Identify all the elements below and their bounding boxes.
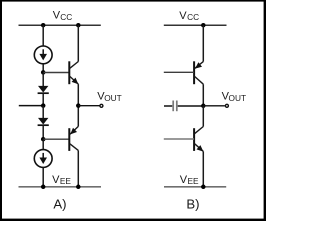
wire D2 to lower node (42, 125, 44, 139)
node dot VEE-A left (41, 185, 46, 190)
current source I2 (34, 150, 52, 168)
svg-text:OUT: OUT (104, 93, 122, 103)
collector wire Q3 to mid node (202, 84, 204, 106)
wire VCC to current source I1 (42, 25, 44, 46)
junction dot I1/D1/base Q1 (41, 70, 46, 75)
svg-text:OUT: OUT (229, 93, 247, 103)
transistor Q3 (PNP top) (194, 61, 203, 84)
diode D2 (38, 118, 49, 125)
capacitor C1 (164, 101, 203, 112)
wire I2 to VEE (42, 167, 44, 186)
svg-text:V: V (180, 174, 188, 186)
VOUT wire A (78, 105, 99, 107)
svg-text:A): A) (53, 197, 66, 212)
label VEE A (52, 174, 71, 186)
emitter node wire Q1-Q2 (77, 84, 79, 126)
transistor Q4 (NPN bottom) (194, 127, 203, 152)
emitter wire Q3 to VCC (202, 25, 204, 61)
border frame (0, 0, 266, 221)
transistor Q1 (NPN top) (69, 61, 78, 84)
label VOUT B (222, 91, 246, 103)
svg-text:B): B) (186, 197, 199, 212)
diode D1 (38, 86, 49, 93)
collector wire Q2 to VEE (77, 150, 79, 186)
collector wire Q1 to VCC (77, 25, 79, 61)
emitter wire Q4 to VEE (202, 151, 204, 186)
node dot VCC-B (201, 23, 206, 28)
base wire Q2 (43, 138, 69, 140)
node dot VEE-B (201, 185, 206, 190)
base wire Q4 (164, 138, 194, 140)
junction dot D2/base Q2/I2 (41, 137, 46, 142)
wire D1 to mid node (42, 93, 44, 106)
input wire A (19, 105, 43, 107)
node dot VEE-A right (76, 185, 81, 190)
wire lower node to current source I2 (42, 139, 44, 149)
svg-text:V: V (52, 174, 60, 186)
collector wire Q4 to mid node (202, 106, 204, 127)
VCC rail B (164, 24, 227, 26)
svg-text:V: V (179, 10, 187, 22)
label VCC A (53, 10, 72, 22)
node dot VCC-A left (41, 23, 46, 28)
wire I1 to node (42, 64, 44, 73)
svg-text:CC: CC (60, 12, 72, 22)
VOUT wire B (203, 105, 225, 107)
terminal VOUT B (225, 104, 228, 107)
VEE rail B (164, 186, 226, 188)
svg-text:CC: CC (187, 12, 199, 22)
junction dot mid B (201, 104, 206, 109)
terminal VOUT A (100, 104, 103, 107)
VEE rail A (19, 186, 102, 188)
current source I1 (34, 46, 52, 64)
svg-text:EE: EE (188, 176, 200, 186)
base wire Q1 (43, 72, 69, 74)
label VEE B (180, 174, 199, 186)
wire mid node to D2 (42, 106, 44, 119)
svg-text:EE: EE (60, 176, 72, 186)
base wire Q3 (164, 71, 194, 73)
junction dot VOUT A (76, 103, 81, 108)
node dot VCC-A right (76, 23, 81, 28)
wire D1 top (42, 72, 44, 86)
VCC rail A (19, 24, 101, 26)
label VCC B (179, 10, 199, 22)
label VOUT A (97, 91, 121, 103)
transistor Q2 (PNP bottom) (69, 126, 78, 150)
junction dot mid A (41, 103, 46, 108)
